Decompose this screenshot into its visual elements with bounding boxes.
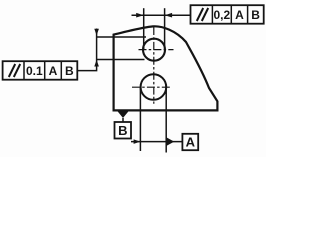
arrow top-left bbox=[136, 13, 144, 18]
left extension line upper bbox=[97, 36, 146, 38]
svg-text:A: A bbox=[49, 64, 58, 78]
arrow left-dim lower bbox=[94, 60, 99, 67]
svg-text:0,2: 0,2 bbox=[213, 8, 230, 22]
hole bottom (circle) bbox=[141, 74, 167, 100]
datum A triangle (filled, on extension line) bbox=[166, 137, 174, 146]
centerline horizontal bottom hole bbox=[132, 86, 171, 88]
centerline vertical through both holes bbox=[153, 27, 155, 104]
centerline horizontal top hole bbox=[139, 49, 174, 51]
part outline bbox=[114, 26, 218, 110]
svg-text:B: B bbox=[251, 8, 260, 22]
bottom extension line right bbox=[165, 88, 167, 153]
parallelism symbol top bbox=[197, 8, 203, 21]
parallelism symbol left bbox=[9, 64, 15, 77]
feature control frame left: // 0.1 A B bbox=[3, 61, 78, 79]
svg-text:A: A bbox=[235, 8, 244, 22]
svg-text:B: B bbox=[65, 64, 74, 78]
top dimension line bbox=[132, 14, 191, 16]
bottom extension line left bbox=[139, 88, 141, 151]
left extension line lower bbox=[97, 59, 145, 61]
top extension line left bbox=[143, 8, 145, 49]
hole top (circle) bbox=[143, 39, 165, 61]
svg-text:0.1: 0.1 bbox=[26, 64, 43, 78]
arrow left-dim upper bbox=[94, 29, 99, 36]
svg-text:B: B bbox=[118, 123, 127, 138]
arrow top-right bbox=[165, 13, 173, 18]
datum A box bbox=[182, 134, 198, 150]
left vertical dimension line + leader from left FCF bbox=[77, 29, 96, 71]
datum B leader bbox=[122, 118, 124, 122]
datum B box bbox=[115, 122, 132, 139]
arrow bottom-left bbox=[134, 139, 141, 144]
feature control frame top: // 0,2 A B bbox=[191, 5, 264, 24]
bottom dimension line (leader to datum A) bbox=[131, 141, 182, 143]
svg-text:A: A bbox=[186, 135, 196, 150]
top extension line right bbox=[164, 8, 166, 49]
datum B triangle (filled, on bottom face) bbox=[118, 111, 129, 118]
